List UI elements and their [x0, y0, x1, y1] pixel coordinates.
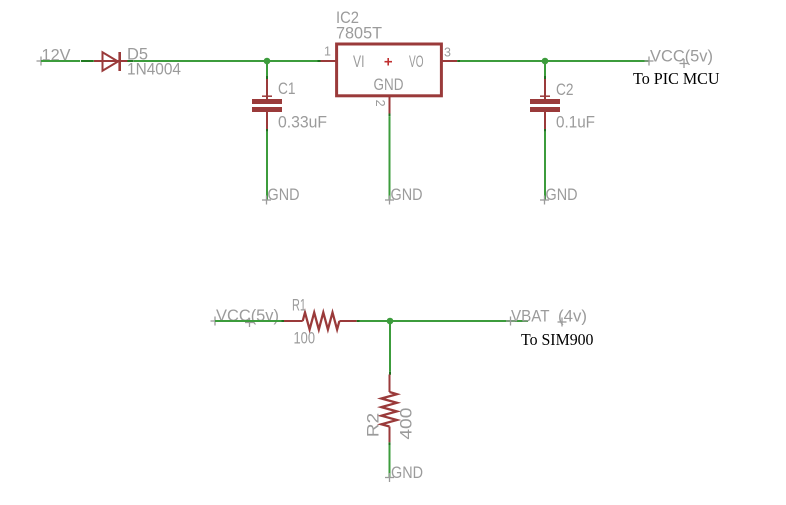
node VCC start cross bottom [211, 317, 220, 326]
svg-text:(4v): (4v) [558, 307, 587, 326]
wire overlap C2 top pin [544, 76, 546, 79]
svg-text:VI: VI [353, 52, 365, 71]
svg-text:To PIC MCU: To PIC MCU [633, 69, 720, 88]
svg-text:7805T: 7805T [336, 24, 382, 43]
wire overlap IC pin3 [457, 60, 460, 62]
wire R1 to VBAT [360, 320, 529, 322]
svg-text:GND: GND [391, 463, 423, 482]
ground GND under IC2 [385, 196, 394, 205]
diode D5 [94, 52, 128, 71]
wire C1 to GND [266, 129, 268, 132]
resistor R1 [284, 313, 357, 330]
ground GND under R2 [385, 473, 394, 482]
pin 1 lead [321, 60, 336, 62]
wire overlap IC pin1 [318, 60, 321, 62]
svg-text:GND: GND [374, 75, 404, 94]
ground GND under C2 [540, 196, 549, 205]
node VCC end cross [645, 57, 654, 66]
capacitor C2 wire from junction [544, 61, 546, 76]
svg-text:1N4004: 1N4004 [127, 60, 181, 79]
svg-text:GND: GND [391, 185, 423, 204]
svg-text:VO: VO [409, 52, 424, 71]
wire overlap IC pin2 [389, 114, 391, 117]
ground GND under C1 [262, 196, 271, 205]
wire VCC to R1 [215, 320, 282, 322]
junction node R divider [387, 318, 394, 325]
junction node C2 top [542, 58, 549, 65]
svg-text:To SIM900: To SIM900 [521, 330, 594, 349]
node cross at paren bottom [245, 318, 254, 327]
svg-text:C2: C2 [556, 80, 574, 99]
wire diode to IC input [134, 60, 318, 62]
wire C2 to GND [544, 129, 546, 132]
wire overlap R2 top pin [389, 372, 391, 375]
svg-text:GND: GND [268, 185, 300, 204]
node VBAT cross [506, 317, 515, 326]
wire overlap pin D5 anode [81, 60, 94, 62]
wire overlap R1 right pin [357, 320, 360, 322]
junction node C1 top [264, 58, 271, 65]
wire overlap C1 top pin [266, 76, 268, 79]
svg-text:C1: C1 [278, 79, 296, 98]
wire IC output to VCC [460, 60, 649, 62]
svg-text:R1: R1 [292, 296, 306, 315]
op-amp substitute: IC2 7805 regulator box [337, 44, 442, 96]
node 12V start cross [37, 57, 46, 66]
svg-text:400: 400 [397, 408, 416, 440]
wire overlap R1 left pin [282, 320, 285, 322]
wire R2 to GND [389, 442, 391, 445]
svg-text:100: 100 [294, 329, 316, 348]
svg-text:VCC(5v): VCC(5v) [650, 47, 713, 66]
wire junction to C1 [266, 61, 268, 76]
svg-text:0.33uF: 0.33uF [278, 113, 327, 132]
wire overlap pin D5 cathode [127, 60, 133, 62]
svg-text:1: 1 [324, 45, 331, 59]
svg-text:GND: GND [546, 185, 578, 204]
svg-text:2: 2 [373, 100, 387, 107]
resistor R2 [381, 375, 397, 443]
svg-text:VBAT: VBAT [511, 307, 550, 326]
polarity plus mark [385, 58, 393, 66]
node cross at 4v [558, 318, 567, 327]
wire junction to R2 [389, 321, 391, 372]
svg-text:R2: R2 [363, 413, 382, 438]
wire IC pin2 to GND [389, 116, 391, 200]
pin 3 lead [442, 60, 457, 62]
svg-text:3: 3 [444, 46, 451, 60]
capacitor C2 symbol [530, 79, 560, 129]
pin 2 lead [389, 96, 391, 114]
node cross at paren [680, 59, 689, 68]
wire 12V to diode [41, 60, 80, 62]
capacitor C1 symbol [252, 79, 282, 129]
svg-text:0.1uF: 0.1uF [556, 113, 595, 132]
